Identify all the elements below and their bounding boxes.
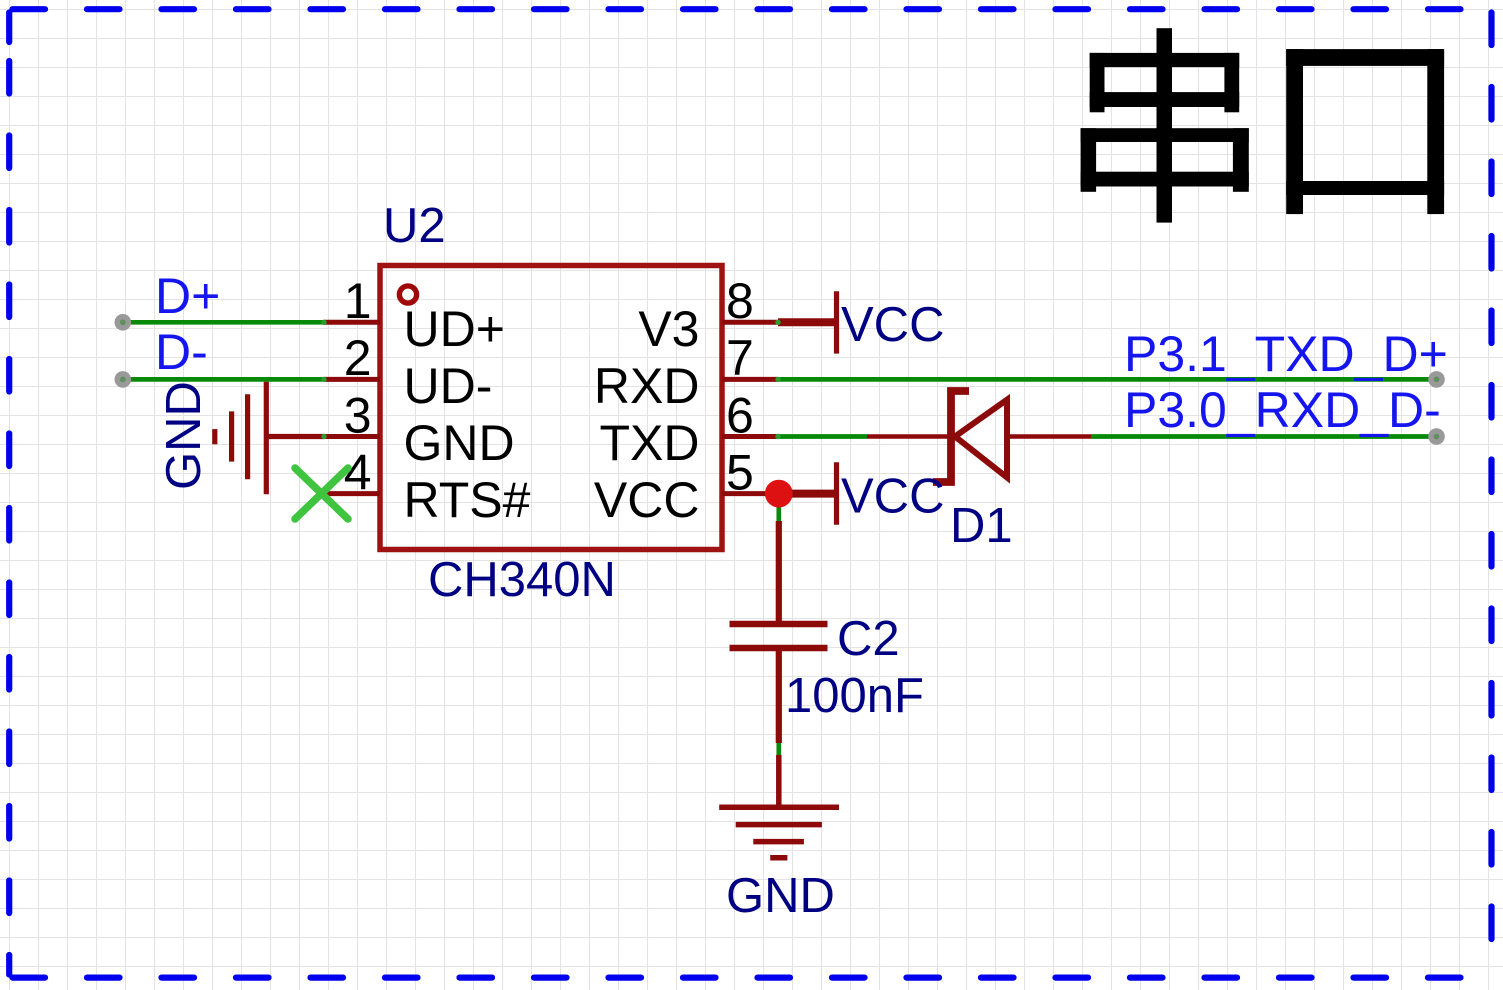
svg-text:TXD: TXD: [600, 415, 700, 471]
svg-text:RXD: RXD: [594, 358, 700, 414]
wire RXD net (pin 7): [778, 377, 1437, 382]
svg-text:2: 2: [344, 330, 372, 386]
node dot pin 8: [775, 320, 780, 325]
wire D1 anode to terminal: [1091, 434, 1437, 439]
pin 1 stub: [324, 320, 380, 325]
title text 口 (drawn strokes): [1286, 49, 1444, 214]
VCC power flag at pin 5: [779, 462, 837, 524]
svg-text:C2: C2: [837, 612, 900, 666]
svg-text:GND: GND: [726, 869, 835, 923]
capacitor C2: [730, 521, 828, 743]
svg-text:CH340N: CH340N: [428, 553, 616, 607]
svg-text:100nF: 100nF: [785, 669, 924, 723]
svg-text:VCC: VCC: [594, 472, 700, 528]
svg-text:7: 7: [726, 330, 754, 386]
svg-text:UD-: UD-: [404, 358, 493, 414]
diode D1 (schottky): [867, 391, 1091, 482]
pin 6 stub: [722, 434, 778, 439]
no-connect flag on pin 4: [295, 468, 348, 519]
terminal P3.1_TXD_D+: [1428, 371, 1445, 388]
svg-text:D1: D1: [950, 499, 1013, 553]
svg-text:P3.0_RXD_D-: P3.0_RXD_D-: [1124, 382, 1441, 438]
ground symbol at pin 3 (rotated left): [215, 382, 324, 495]
ground symbol (bottom): [719, 755, 839, 858]
pin-1 marker circle: [399, 286, 416, 303]
wire D+ net: [123, 320, 324, 325]
junction dot (pin 5 node): [765, 480, 793, 508]
pin 2 stub: [324, 377, 380, 382]
wire TXD net (pin 6, green part): [778, 434, 867, 439]
pin 4 stub: [324, 491, 380, 496]
svg-text:VCC: VCC: [841, 470, 944, 524]
wire C2 to ground: [776, 743, 781, 755]
svg-text:UD+: UD+: [404, 301, 505, 357]
node dot pin 1: [321, 320, 326, 325]
svg-text:P3.1_TXD_D+: P3.1_TXD_D+: [1124, 326, 1448, 382]
node dot pin 7: [775, 377, 780, 382]
svg-text:U2: U2: [383, 199, 446, 253]
svg-text:8: 8: [726, 273, 754, 329]
pin 8 stub: [722, 320, 778, 325]
svg-text:6: 6: [726, 387, 754, 443]
pin 5 stub: [722, 491, 778, 496]
terminal D+: [115, 314, 132, 331]
wire D- net: [123, 377, 324, 382]
svg-text:1: 1: [344, 273, 372, 329]
svg-text:GND: GND: [404, 415, 515, 471]
svg-text:3: 3: [344, 387, 372, 443]
node dot pin 6: [775, 434, 780, 439]
svg-text:D+: D+: [155, 268, 220, 324]
terminal D-: [115, 371, 132, 388]
svg-text:RTS#: RTS#: [404, 472, 531, 528]
title text 串 (drawn strokes): [1081, 28, 1249, 222]
pin 7 stub: [722, 377, 778, 382]
node dot pin 2: [321, 377, 326, 382]
VCC power flag at pin 8: [778, 291, 837, 353]
wire junction to C2: [776, 494, 781, 524]
svg-text:V3: V3: [638, 301, 699, 357]
node dot pin 3: [321, 434, 326, 439]
svg-text:VCC: VCC: [841, 298, 944, 352]
svg-text:GND: GND: [157, 381, 211, 490]
svg-text:5: 5: [726, 444, 754, 500]
IC U2 body: [380, 266, 722, 550]
pin 3 stub: [324, 434, 380, 439]
terminal P3.0_RXD_D-: [1428, 428, 1445, 445]
svg-text:D-: D-: [155, 324, 208, 380]
